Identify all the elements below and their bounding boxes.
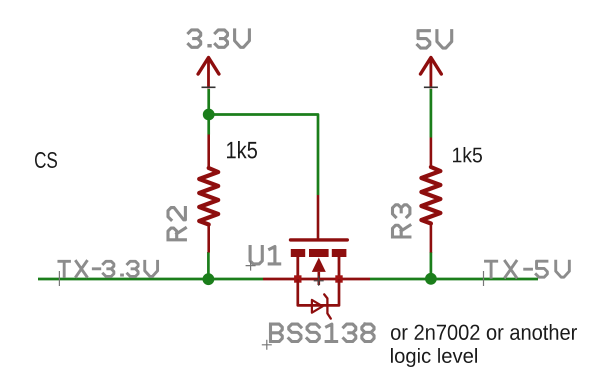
- resistor R2 lead: [207, 135, 210, 169]
- resistor R2: [199, 168, 218, 225]
- junction dot (TX-5V node): [425, 273, 437, 285]
- resistor R3 lead: [430, 224, 433, 253]
- junction dot (3.3V node): [203, 109, 215, 121]
- label R2: [168, 208, 185, 240]
- transistor U1 gate lead: [317, 195, 320, 239]
- wire: [430, 89, 433, 138]
- resistor R2 lead: [207, 225, 210, 253]
- net label cross TX-3.3V: [58, 271, 60, 286]
- body diode zener cathode: [324, 294, 331, 318]
- transistor U1 body stem: [317, 272, 320, 285]
- transistor U1 gate bar: [291, 238, 348, 241]
- body diode triangle: [312, 300, 323, 313]
- pin cross: [202, 86, 216, 88]
- transistor U1 drain pin: [296, 257, 299, 279]
- body diode loop: [298, 279, 339, 305]
- junction dot (TX-3.3V node): [203, 273, 215, 285]
- supply arrow 5V: [421, 58, 442, 75]
- label cross BSS138: [262, 340, 272, 350]
- net label TX-5V: [486, 261, 570, 277]
- resistor R3: [421, 167, 440, 224]
- transistor U1 channel segments: [291, 249, 305, 257]
- wire: [370, 278, 538, 281]
- label R3: [393, 205, 410, 237]
- wire: [207, 89, 210, 135]
- pin cross: [424, 86, 438, 88]
- resistor R3 lead: [430, 138, 433, 168]
- wire: [430, 252, 433, 279]
- transistor U1 source pin: [338, 257, 341, 279]
- value 1k5 (R2): [227, 141, 257, 159]
- junction (drain): [294, 275, 301, 282]
- wire: [38, 278, 263, 281]
- wire: [209, 115, 318, 196]
- text CS: [35, 152, 57, 168]
- net label cross TX-5V: [483, 271, 485, 286]
- text note line 2: [391, 348, 477, 367]
- supply arrow 3.3V: [198, 58, 219, 75]
- junction (source): [335, 275, 342, 282]
- value 1k5 (R3): [453, 147, 482, 163]
- label 5V: [418, 31, 452, 48]
- wire (drain-source rail): [263, 278, 370, 281]
- label 3.3V: [189, 30, 250, 47]
- wire: [207, 252, 210, 279]
- transistor U1 body arrow: [312, 258, 326, 272]
- net label TX-3.3V: [59, 261, 158, 276]
- label U1: [250, 247, 280, 264]
- origin cross U1: [314, 276, 324, 286]
- label BSS138: [271, 324, 375, 341]
- text note line 1: [391, 324, 577, 340]
- label cross U1: [246, 261, 256, 271]
